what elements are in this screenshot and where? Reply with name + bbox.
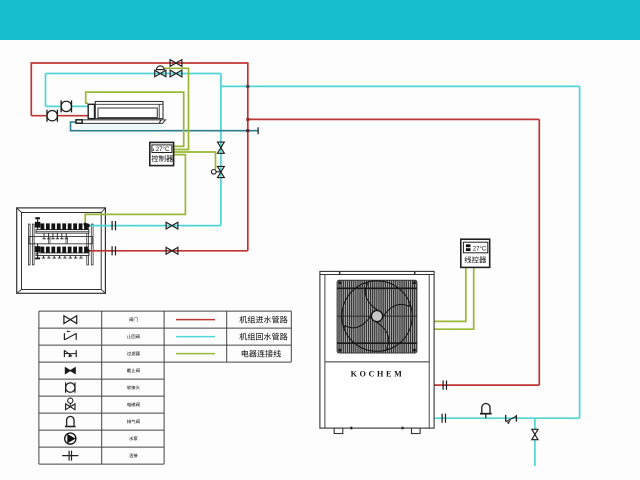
wire cyan drain branch <box>534 418 536 466</box>
thermostat controller box <box>150 142 174 165</box>
legend symbol flexible joint <box>66 382 75 392</box>
legend symbol check valve <box>64 330 76 340</box>
drain valve on cyan branch <box>532 429 538 439</box>
union on red manifold line <box>112 246 115 255</box>
wire green heat pump to wired controller A <box>434 268 466 322</box>
legend label 机组回水管路 <box>239 333 287 340</box>
motorized valve on cyan top line <box>155 66 166 77</box>
wire red mid vertical <box>247 62 249 251</box>
legend color table grid <box>164 311 291 362</box>
wired controller box <box>461 239 490 267</box>
wired controller label 线控器 <box>465 256 487 263</box>
wire cyan mid vertical <box>220 74 222 226</box>
legend label 机组进水管路 <box>239 316 287 323</box>
legend symbol strainer <box>64 350 76 357</box>
manifold supply header stubs <box>42 233 68 239</box>
wire cyan right vertical <box>579 86 581 418</box>
valve on cyan mid vertical <box>218 142 225 153</box>
node junction red-drain crossing <box>246 129 249 132</box>
valve on red top line <box>170 60 182 67</box>
svg-text:27°C: 27°C <box>156 146 170 153</box>
legend symbol union <box>62 451 78 461</box>
wire red to manifold <box>88 250 248 252</box>
legend label 截止阀 <box>127 368 140 372</box>
heat pump feet <box>334 427 420 434</box>
solenoid valve with coil on cyan mid vertical <box>212 166 225 177</box>
legend symbol gate valve <box>64 316 77 324</box>
legend label 软接头 <box>127 385 140 389</box>
legend label 水泵 <box>129 436 137 440</box>
manifold return header bar <box>36 253 89 256</box>
wire green heat pump to wired controller B <box>434 268 474 330</box>
check valve on cyan heat pump line <box>506 415 517 424</box>
legend label 排气阀 <box>127 419 140 423</box>
manifold end valve bottom <box>35 244 40 259</box>
valve on cyan manifold line <box>166 222 178 229</box>
heat pump divider line <box>325 361 429 363</box>
manifold return header stubs <box>42 256 83 259</box>
legend symbol pump <box>65 433 76 444</box>
legend label 止回阀 <box>127 334 140 338</box>
wire red supply to fan coil <box>31 115 88 117</box>
legend cyan line sample <box>176 336 215 338</box>
wire red upper horizontal to right <box>248 118 540 120</box>
legend label 电器连接线 <box>242 350 281 357</box>
legend label 过滤器 <box>127 351 140 355</box>
manifold supply header bar <box>36 230 89 234</box>
valve on cyan top line <box>170 70 182 77</box>
union on cyan heat pump line <box>442 414 445 423</box>
legend green line sample <box>176 353 215 355</box>
manifold right mounting rails <box>87 224 93 265</box>
heat pump fan circle <box>342 281 412 351</box>
air vent on cyan heat pump line <box>480 404 492 419</box>
legend label 电磁阀 <box>127 402 139 406</box>
fan coil drain pan <box>76 120 166 124</box>
node junction red tee <box>246 118 249 121</box>
heat pump fan grille <box>337 280 417 353</box>
legend red line sample <box>176 319 215 321</box>
fan coil connection box <box>88 104 94 118</box>
legend table grid <box>39 311 164 464</box>
wire red right vertical <box>538 119 540 385</box>
heat pump fan blades <box>342 281 411 350</box>
wire cyan return top horizontal <box>46 73 221 75</box>
pump on cyan fan coil line <box>61 100 71 112</box>
union on red heat pump line <box>443 381 446 390</box>
legend label 阀门 <box>129 317 137 321</box>
node green manifold terminal <box>84 223 87 226</box>
pump on red fan coil line <box>47 110 57 122</box>
manifold left mounting rails <box>28 224 34 265</box>
heat pump fan hub <box>371 311 382 322</box>
wire green thermostat to motor valve <box>164 68 189 149</box>
manifold supply header valve row <box>41 223 88 229</box>
manifold middle rails <box>28 237 93 244</box>
heat pump cabinet <box>320 271 434 428</box>
legend symbol air vent <box>65 416 76 426</box>
node junction red-cyan crossing <box>246 85 249 88</box>
top teal banner <box>0 0 640 40</box>
wire cyan to manifold <box>88 225 221 227</box>
manifold return header valve row <box>41 247 88 254</box>
wire condensate drain <box>71 122 259 134</box>
wire cyan long horizontal to right <box>221 85 580 87</box>
union on cyan manifold line <box>112 221 115 230</box>
wire green thermostat to solenoid valve <box>173 152 215 169</box>
wire red supply top horizontal <box>31 62 248 64</box>
wire red supply left vertical <box>30 62 32 115</box>
svg-text:27°C: 27°C <box>473 246 487 252</box>
manifold cabinet outer box <box>17 208 106 293</box>
fan coil unit body <box>95 102 163 119</box>
legend symbol solenoid valve <box>66 398 75 410</box>
condensate pan shadow wash <box>80 125 163 131</box>
wire red into heat pump <box>434 384 540 386</box>
svg-text:KOCHEM: KOCHEM <box>351 369 405 378</box>
manifold cabinet inner box <box>17 208 106 293</box>
wire cyan return left vertical <box>45 74 47 107</box>
wire green thermostat to manifold <box>85 155 185 224</box>
manifold end valve top <box>35 217 40 229</box>
valve on red manifold line <box>166 247 178 254</box>
wire green thermostat to fan coil <box>86 92 184 146</box>
legend symbol stop valve <box>65 368 75 374</box>
node cyan manifold terminal <box>86 224 90 228</box>
wire cyan into heat pump <box>434 417 580 419</box>
legend label 活接 <box>129 453 137 457</box>
node red manifold terminal <box>86 249 90 253</box>
thermostat label 控制器 <box>152 155 173 162</box>
wire cyan to fan coil <box>46 105 89 107</box>
